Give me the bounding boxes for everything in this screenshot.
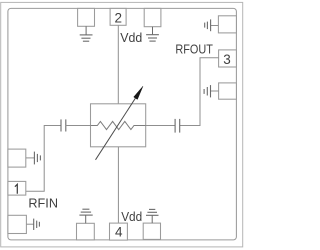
svg-text:RFOUT: RFOUT [175, 42, 213, 57]
ground (left of right-top pad) [205, 19, 211, 31]
port 4 box [110, 223, 128, 240]
resistor zigzag inside U1 [91, 121, 146, 129]
wire port2 to attenuator top [117, 25, 119, 104]
capacitor C1 (input series) [61, 119, 66, 131]
pad top-right [144, 8, 161, 26]
variable arrow through U1 [96, 98, 136, 160]
pad left-mid [8, 149, 26, 167]
pad top-left [78, 8, 95, 26]
wire C1 to attenuator [66, 125, 91, 127]
port 1 box [8, 181, 26, 195]
pad right-top [218, 16, 236, 33]
svg-text:Vdd: Vdd [120, 30, 142, 45]
ground (above bottom pad 2) [146, 209, 159, 223]
wire pad to ground [26, 157, 35, 159]
ground (above bottom pad 1) [79, 209, 92, 223]
wire attenuator to capacitor C2 [146, 125, 175, 127]
ground (right of left-mid pad) [34, 152, 40, 165]
wire input corner to capacitor C1 [26, 126, 61, 192]
pad bottom-left corner [8, 215, 27, 233]
ground (right of bottom-left pad) [34, 219, 40, 230]
port 2 box [110, 8, 126, 25]
svg-text:4: 4 [115, 224, 123, 239]
ground (left of right-mid pad) [204, 85, 210, 97]
chip outline [8, 8, 237, 240]
pad bottom-2 [143, 223, 160, 239]
outer border (decorative) [1, 2, 243, 247]
svg-text:Vdd: Vdd [121, 209, 142, 224]
svg-text:3: 3 [223, 52, 231, 67]
ground (below top-left pad) [80, 26, 93, 41]
pad right-mid [219, 83, 237, 99]
wire port3 to output capacitor [180, 58, 219, 126]
pad bottom-1 [77, 223, 95, 240]
capacitor C2 (output series) [175, 119, 180, 133]
variable attenuator U1 body [91, 104, 146, 147]
wire pad to ground [26, 223, 33, 225]
wire attenuator bottom to port 4 [117, 147, 119, 223]
wire pad to ground [211, 25, 219, 27]
wire pad to ground [211, 90, 219, 92]
svg-text:RFIN: RFIN [28, 196, 58, 211]
ground (below top-right pad) [146, 27, 159, 41]
svg-text:2: 2 [115, 11, 123, 26]
port 3 box [219, 50, 237, 67]
